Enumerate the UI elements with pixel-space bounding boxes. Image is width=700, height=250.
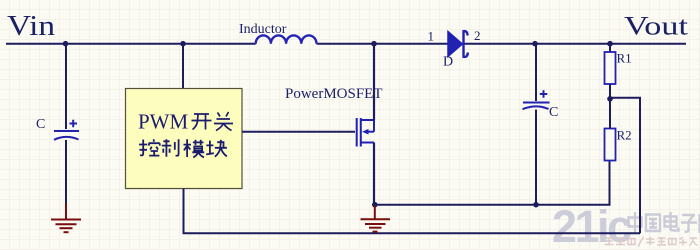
ground (MOSFET source) xyxy=(361,205,391,232)
wire feedback xyxy=(610,98,640,233)
capacitor C (output) xyxy=(523,90,550,109)
label D xyxy=(443,55,453,70)
wire R1 top stub xyxy=(609,44,611,52)
svg-text:PowerMOSFET: PowerMOSFET xyxy=(285,86,383,102)
label Vout xyxy=(624,11,689,40)
label pin 2 xyxy=(474,28,481,43)
node junction output cap bottom xyxy=(533,202,539,208)
svg-text:PWM: PWM xyxy=(138,110,189,134)
resistor R2 xyxy=(605,129,616,161)
wire top rail xyxy=(6,43,686,45)
diode D xyxy=(448,31,468,57)
node junction at PWM feed xyxy=(180,41,186,47)
wire input cap top xyxy=(65,44,67,129)
wire drain xyxy=(373,44,375,120)
inductor L1 coil xyxy=(256,35,317,43)
svg-text:C: C xyxy=(36,117,45,132)
label PWM开关 xyxy=(138,110,233,134)
label R2 xyxy=(617,128,632,143)
wire R2 top stub xyxy=(609,99,611,129)
label Vin xyxy=(7,10,56,42)
wire PWM top xyxy=(182,44,184,89)
PWM control module box xyxy=(126,89,243,189)
node junction at output cap xyxy=(532,41,538,47)
wire gate xyxy=(242,131,355,133)
svg-text:R2: R2 xyxy=(617,128,632,143)
wire output cap top xyxy=(535,44,537,101)
svg-text:Vout: Vout xyxy=(624,11,689,40)
capacitor C (input) xyxy=(54,120,79,140)
wire source xyxy=(373,143,375,205)
label Inductor xyxy=(239,22,287,37)
svg-text:21ic: 21ic xyxy=(552,201,631,250)
transistor Q1 PowerMOSFET xyxy=(357,118,374,147)
svg-text:D: D xyxy=(443,55,453,70)
wire source rail to R2 xyxy=(375,161,610,205)
svg-text:R1: R1 xyxy=(617,51,632,66)
wire R1 bottom stub xyxy=(609,84,611,99)
watermark 21ic 中国电子网 xyxy=(552,201,700,250)
wire output cap bottom xyxy=(535,110,537,205)
svg-text:Vin: Vin xyxy=(7,10,56,42)
resistor R1 xyxy=(605,52,616,84)
ground (input side) xyxy=(51,203,81,232)
node junction source-ground xyxy=(372,202,378,208)
node junction R1-R2 xyxy=(607,96,613,102)
wire input cap bottom xyxy=(65,140,67,204)
label C (output) xyxy=(549,105,558,120)
label 控制模块 xyxy=(139,139,227,157)
label PowerMOSFET xyxy=(285,86,383,102)
label C (input) xyxy=(36,117,45,132)
node junction at switch node xyxy=(371,41,377,47)
node junction at R1 top xyxy=(607,41,613,47)
svg-text:C: C xyxy=(549,105,558,120)
label pin 1 xyxy=(428,29,435,44)
svg-text:2: 2 xyxy=(474,28,481,43)
wire PWM bottom xyxy=(184,189,641,234)
svg-text:1: 1 xyxy=(428,29,435,44)
node junction at input cap xyxy=(63,41,69,47)
label R1 xyxy=(617,51,632,66)
